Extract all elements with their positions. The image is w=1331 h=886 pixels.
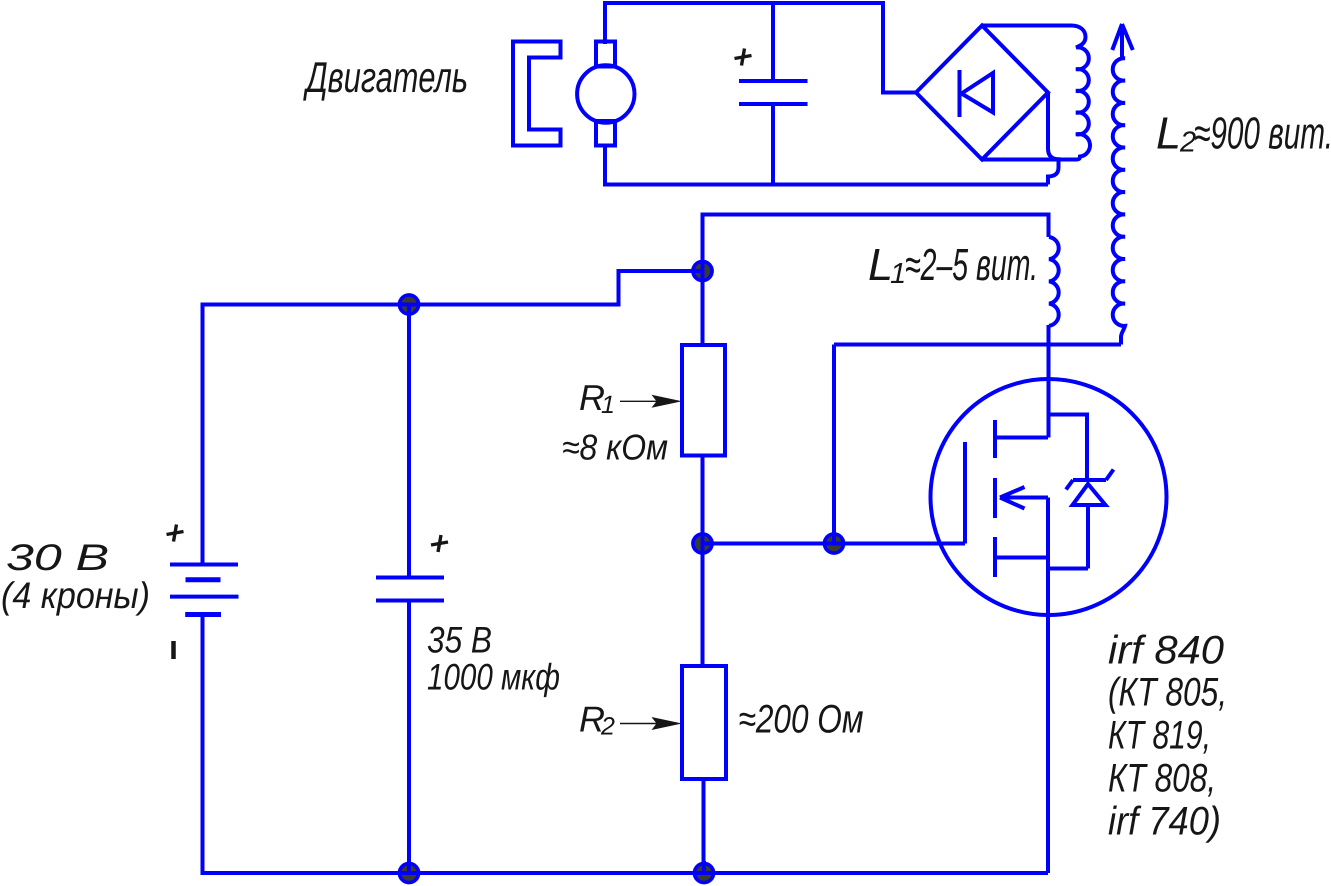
svg-text:КТ 819,: КТ 819, [1108,714,1211,758]
svg-text:≈8 кОм: ≈8 кОм [562,427,668,468]
svg-text:(КТ 805,: (КТ 805, [1108,671,1227,715]
svg-text:≈2–5 вит.: ≈2–5 вит. [905,239,1038,290]
svg-text:irf 840: irf 840 [1108,629,1224,673]
svg-text:L: L [1156,108,1181,159]
svg-text:(4 кроны): (4 кроны) [1,575,150,616]
svg-text:Двигатель: Двигатель [303,54,468,102]
svg-text:≈200 Ом: ≈200 Ом [739,698,864,742]
svg-text:1000 мкф: 1000 мкф [427,657,560,698]
svg-text:1: 1 [890,258,906,290]
svg-text:irf 740): irf 740) [1108,800,1221,844]
svg-text:35 В: 35 В [427,620,492,661]
svg-text:30 В: 30 В [6,537,109,578]
svg-text:≈900 вит.: ≈900 вит. [1194,108,1331,159]
svg-text:1: 1 [601,391,615,419]
svg-text:КТ 808,: КТ 808, [1108,757,1216,801]
svg-text:2: 2 [600,713,615,741]
